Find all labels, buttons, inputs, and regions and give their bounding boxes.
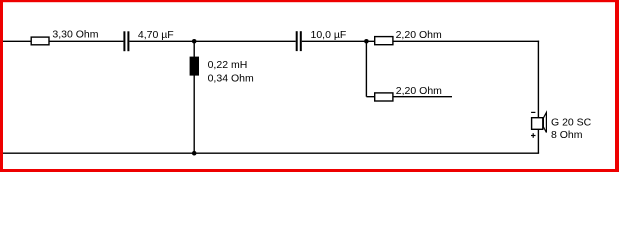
svg-text:4,70 µF: 4,70 µF [138,29,174,41]
svg-text:8 Ohm: 8 Ohm [551,129,583,141]
speaker plus terminal mark [531,133,536,138]
label L1 value 0,22 mH / 0,34 Ohm [208,59,254,84]
svg-text:10,0 µF: 10,0 µF [311,29,347,41]
speaker LS1 (G 20 SC) [532,113,547,133]
svg-text:2,20 Ohm: 2,20 Ohm [396,29,442,41]
wire: bottom return from left edge to right vertical [3,152,539,154]
label speaker G 20 SC / 8 Ohm [551,117,592,142]
node C (junction of R2/R3 branch) [364,39,369,44]
speaker minus terminal mark [531,111,535,113]
wire: C1 to node A [129,40,194,42]
node B (junction of inductor branch on bottom return) [192,151,197,156]
wire: input top-left to capacitor C1 (passes under R1) [3,40,123,42]
svg-text:0,22 mH: 0,22 mH [208,59,248,71]
wire: node C down to alternative branch [365,41,367,96]
capacitor C1 [123,31,129,51]
wire: node A down to inductor L1 [193,41,195,57]
svg-text:3,30 Ohm: 3,30 Ohm [52,29,98,41]
svg-text:G 20 SC: G 20 SC [551,117,592,129]
resistor R3 (alternative 2,20 Ohm) [375,93,393,101]
resistor R2 [375,37,393,45]
wire: L1 down to node B on bottom return [193,75,195,153]
capacitor C2 [296,31,302,51]
wire: branch 2 horizontal with open stub end (passes under R3) [366,96,452,98]
wire: node A to capacitor C2 [194,40,296,42]
wire: C2 to node C [302,40,367,42]
inductor L1 [190,57,199,76]
wire: node C to top-right corner (passes under R2) [366,40,539,42]
node A (top junction of inductor branch) [192,39,197,44]
svg-text:0,34 Ohm: 0,34 Ohm [208,72,254,84]
svg-text:2,20 Ohm: 2,20 Ohm [396,85,442,97]
wire: right vertical from corner down to speaker and to bottom return [537,41,539,154]
resistor R1 [31,37,49,45]
